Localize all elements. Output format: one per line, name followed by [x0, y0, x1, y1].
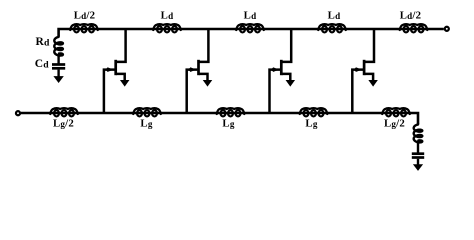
- resistor Rd: [54, 36, 63, 57]
- svg-text:Lg/2: Lg/2: [53, 118, 74, 130]
- node: gate line input terminal: [16, 111, 20, 115]
- wire: Q1 gate lead from gate line: [104, 70, 115, 114]
- inductor L1 Ld/2: [70, 24, 98, 32]
- resistor Rg (gate termination): [414, 124, 423, 144]
- svg-text:Ld/2: Ld/2: [400, 9, 421, 21]
- ground arrow (below Cd): [53, 70, 63, 83]
- wire: Q4 drain to drain line: [365, 29, 374, 62]
- gate arrow of Q2: [189, 67, 196, 72]
- wire: Rg to Cg lead: [417, 143, 419, 153]
- node: drain line output terminal: [445, 27, 449, 31]
- svg-text:Lg: Lg: [222, 118, 234, 130]
- inductor L10 Lg/2: [382, 108, 410, 116]
- wire: Q2 drain to drain line: [199, 29, 208, 62]
- inductor L8 Lg: [217, 108, 245, 116]
- svg-text:Ld: Ld: [328, 9, 341, 21]
- capacitor Cg (gate termination): [412, 154, 424, 158]
- wire: Q4 source lead: [365, 74, 374, 81]
- channel bar of Q4: [363, 60, 366, 75]
- transistor Q4 (FET): [352, 29, 378, 114]
- wire: Q2 source lead: [199, 74, 208, 81]
- wire: Q1 drain to drain line: [116, 29, 125, 62]
- ground arrow at Q3 source: [286, 80, 296, 87]
- inductor L4 Ld: [318, 24, 346, 32]
- svg-text:Rd: Rd: [35, 36, 50, 49]
- ground arrow (below Cg): [413, 159, 423, 171]
- ground arrow at Q1 source: [120, 80, 130, 87]
- transistor Q3 (FET): [270, 29, 296, 114]
- wire: Q3 gate lead from gate line: [270, 70, 281, 114]
- channel bar of Q2: [197, 60, 200, 75]
- wire: Q3 drain to drain line: [282, 29, 291, 62]
- svg-text:Ld: Ld: [161, 9, 174, 21]
- wire: Q2 gate lead from gate line: [187, 70, 198, 114]
- wire: Rd to Cd lead: [57, 56, 59, 64]
- svg-text:Lg: Lg: [140, 118, 152, 130]
- channel bar of Q1: [114, 60, 117, 75]
- gate arrow of Q1: [106, 67, 113, 72]
- ground arrow at Q4 source: [368, 80, 378, 87]
- svg-text:Lg/2: Lg/2: [384, 118, 405, 130]
- gate arrow of Q3: [272, 67, 279, 72]
- svg-text:Lg: Lg: [305, 118, 317, 130]
- wire: bottom gate rail: [21, 113, 418, 124]
- svg-text:Ld/2: Ld/2: [74, 9, 95, 21]
- transistor Q2 (FET): [187, 29, 213, 114]
- ground arrow at Q2 source: [203, 80, 213, 87]
- capacitor Cd: [52, 65, 65, 69]
- wire: top drain rail: [59, 29, 444, 36]
- gate arrow of Q4: [355, 67, 362, 72]
- inductor L6 Lg/2: [50, 108, 78, 116]
- svg-text:Ld: Ld: [244, 9, 257, 21]
- inductor L3 Ld: [236, 24, 264, 32]
- wire: Q3 source lead: [282, 74, 291, 81]
- wire: Q4 gate lead from gate line: [352, 70, 363, 114]
- inductor L9 Lg: [300, 108, 328, 116]
- inductor L5 Ld/2: [400, 24, 428, 32]
- inductor L2 Ld: [153, 24, 181, 32]
- inductor L7 Lg: [133, 108, 161, 116]
- transistor Q1 (FET): [104, 29, 130, 114]
- wire: Q1 source lead: [116, 74, 125, 81]
- channel bar of Q3: [280, 60, 283, 75]
- svg-text:Cd: Cd: [35, 58, 50, 71]
